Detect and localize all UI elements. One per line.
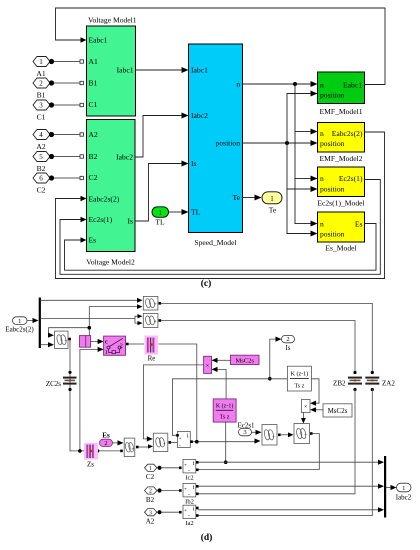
svg-text:-: - [188, 513, 190, 519]
svg-text:1: 1 [158, 209, 162, 217]
dot product block D1 [55, 331, 71, 348]
outport Te [262, 192, 282, 215]
svg-text:Es: Es [355, 220, 363, 229]
wire switch out to Re [126, 343, 129, 346]
wire K2 up to Mult1 [218, 369, 227, 399]
node B1 [49, 80, 54, 85]
svg-text:+: + [184, 463, 187, 469]
sum block S2 [153, 433, 171, 451]
svg-text:TL: TL [155, 218, 165, 227]
svg-text:MsC2s: MsC2s [235, 358, 254, 365]
svg-text:Iabc2: Iabc2 [191, 111, 208, 120]
svg-text:+: + [184, 508, 187, 514]
svg-text:+: + [272, 433, 275, 438]
node A2 [49, 132, 54, 137]
wire [54, 61, 80, 63]
svg-text:position: position [320, 185, 345, 194]
svg-text:Ic2: Ic2 [185, 475, 193, 482]
wire MsC2s to Mult1 [218, 359, 231, 361]
svg-text:1: 1 [149, 466, 152, 472]
outport Ec2s1 [237, 421, 255, 436]
svg-text:Ec2s(1)_Model: Ec2s(1)_Model [317, 199, 364, 208]
wire bus2 to sumB [41, 316, 138, 323]
svg-text:A2: A2 [89, 130, 98, 139]
wire Ec2s out loop [60, 180, 380, 275]
node C2 [49, 175, 54, 180]
wire Re out [159, 344, 197, 441]
svg-text:+: + [65, 339, 68, 344]
svg-text:5: 5 [39, 153, 43, 161]
node feedback [88, 326, 92, 330]
svg-text:position: position [320, 139, 345, 148]
wire position [243, 142, 311, 144]
wire Es to sum1 [113, 442, 118, 444]
inport 1 [33, 57, 50, 67]
svg-text:Voltage Model1: Voltage Model1 [88, 16, 137, 25]
wire delay to switch [91, 341, 98, 343]
wire D1 out down through ZC2s [69, 340, 71, 451]
svg-text:Eabc2s(2): Eabc2s(2) [5, 326, 34, 334]
node n [293, 82, 297, 86]
current source Ib2 [183, 484, 199, 506]
svg-text:B2: B2 [89, 152, 98, 161]
svg-text:EMF_Model2: EMF_Model2 [319, 154, 362, 163]
svg-text:-: - [179, 443, 181, 449]
svg-text:+: + [184, 487, 187, 493]
wire sumB out to ZB2 column [161, 321, 355, 372]
svg-text:A1: A1 [89, 57, 98, 66]
sum block S4 [294, 424, 313, 444]
svg-text:B2: B2 [146, 496, 155, 504]
svg-text:×: × [304, 405, 307, 411]
wire C2 to Ic2 [162, 467, 180, 469]
wire [54, 177, 80, 179]
wire mux to Iabc2 [386, 487, 391, 489]
discrete K (z-1)/Ts z (magenta) [213, 399, 236, 422]
svg-text:Ec2s(1): Ec2s(1) [89, 215, 113, 224]
node position [285, 141, 289, 145]
wire S1 out to S2 [139, 446, 149, 448]
svg-text:position: position [216, 139, 241, 148]
wire Eabc1 feedback into VM1 [56, 8, 386, 85]
svg-text:Te: Te [233, 193, 241, 202]
wire K2 tap down to Ic2 line [225, 422, 227, 462]
svg-text:EMF_Model1: EMF_Model1 [319, 107, 362, 116]
svg-text:ZC2s: ZC2s [46, 380, 61, 388]
wire sumA out to ZA2 column [161, 303, 372, 371]
svg-text:Re: Re [148, 355, 156, 363]
current source Ic2 [183, 460, 199, 482]
node A1 [49, 59, 54, 64]
svg-text:1: 1 [18, 318, 21, 325]
current sensor Isens1 [176, 432, 193, 449]
svg-text:position: position [320, 91, 345, 100]
svg-text:B1: B1 [37, 91, 46, 100]
wire sensor line to K1 [173, 379, 288, 436]
svg-text:+: + [154, 303, 157, 308]
svg-text:Ib2: Ib2 [185, 499, 194, 506]
wire EMF1 out [365, 84, 386, 86]
wire Iabc2 [135, 116, 181, 158]
wire Is [135, 164, 181, 222]
wire Ia2 top to mux [199, 509, 379, 511]
svg-text:Is: Is [191, 159, 197, 168]
svg-text:K (z-1): K (z-1) [291, 371, 309, 378]
sum block S3 [262, 425, 281, 446]
svg-text:C1: C1 [89, 100, 98, 109]
mux bar [384, 456, 386, 518]
wire Ic2 top to mux [199, 461, 379, 463]
wire Ec2s1 to sum3 [252, 431, 257, 433]
inport TL [152, 207, 169, 227]
svg-text:-: - [188, 492, 190, 498]
svg-text:position: position [320, 230, 345, 239]
inport 5 [33, 152, 50, 162]
svg-text:Es: Es [89, 236, 97, 245]
svg-text:+: + [304, 432, 307, 437]
subsystem Speed_Model [189, 44, 243, 247]
svg-text:Zs: Zs [87, 461, 94, 469]
unit delay block [80, 336, 91, 348]
sum block S1 [124, 438, 138, 456]
sum block A [143, 296, 161, 310]
svg-text:TL: TL [191, 208, 201, 217]
wire Te [243, 197, 256, 199]
svg-text:Eabc1: Eabc1 [343, 81, 362, 90]
wire Iabc1 [136, 69, 182, 71]
impedance Zs [84, 443, 98, 469]
wire feedback net [49, 307, 137, 336]
svg-text:(d): (d) [201, 532, 213, 543]
inport A2 [145, 509, 162, 526]
wire [54, 156, 80, 158]
wire Mult2 down to sum4 [302, 413, 304, 421]
svg-text:C2: C2 [37, 186, 46, 195]
inport 2 [33, 78, 50, 88]
wire B2 to Ib2 [162, 490, 180, 492]
svg-text:K (z-1): K (z-1) [216, 403, 234, 410]
subsystem Ec2s(1)_Model [317, 167, 364, 208]
wire S2 out to Isens1 [171, 441, 177, 443]
node B2 [49, 154, 54, 159]
product Mult2 (white, flipped) [302, 400, 311, 413]
svg-text:2: 2 [286, 336, 289, 343]
svg-text:3: 3 [243, 429, 246, 436]
svg-text:n: n [320, 174, 324, 183]
resistor Re [145, 336, 159, 363]
gain MsC2s (magenta) [231, 355, 260, 364]
svg-text:2: 2 [149, 489, 152, 495]
svg-text:2: 2 [39, 80, 43, 88]
svg-text:n: n [320, 220, 324, 229]
svg-text:1: 1 [39, 58, 43, 66]
svg-text:n: n [236, 80, 240, 89]
svg-text:Is: Is [285, 344, 290, 352]
svg-text:c: c [105, 340, 108, 346]
svg-text:+: + [179, 436, 182, 442]
svg-text:A1: A1 [36, 69, 45, 78]
subsystem EMF_Model1 [318, 72, 365, 116]
svg-text:1: 1 [402, 485, 405, 492]
sum block B [143, 313, 161, 327]
wire Is tap [270, 339, 276, 379]
subsystem Es_Model [318, 212, 365, 253]
wire MsC2s2 to Mult2 [316, 409, 324, 411]
inport 4 [33, 130, 50, 140]
svg-text:B2: B2 [37, 164, 46, 173]
subsystem EMF_Model2 [318, 123, 365, 164]
svg-text:n: n [320, 129, 324, 138]
svg-text:ZB2: ZB2 [333, 380, 346, 388]
svg-text:3: 3 [149, 510, 152, 516]
svg-text:A2: A2 [36, 142, 45, 151]
svg-text:2: 2 [104, 440, 107, 447]
wire Eabc2s into demux [27, 320, 33, 322]
svg-text:+: + [154, 320, 157, 325]
switch block [104, 336, 126, 356]
wire S3 out to S4 [281, 434, 289, 436]
svg-text:ZA2: ZA2 [382, 380, 395, 388]
discrete K (z-1)/Ts z (white) [287, 366, 311, 391]
inport 3 [33, 100, 50, 110]
inport Eabc2s(2) [5, 317, 34, 334]
svg-text:MsC2s: MsC2s [328, 407, 348, 415]
svg-text:A2: A2 [146, 518, 155, 526]
svg-text:Es_Model: Es_Model [325, 244, 356, 253]
svg-text:C2: C2 [89, 173, 98, 182]
wire Isens1 out to sum3 [193, 441, 255, 443]
wire position bus [286, 94, 288, 234]
product Mult1 (flipped) [204, 356, 212, 373]
inport C2 [145, 464, 162, 481]
svg-text:Iabc1: Iabc1 [117, 66, 134, 75]
svg-text:Ts z: Ts z [220, 415, 230, 421]
inport 6 [33, 173, 50, 183]
svg-text:Ec2s(1): Ec2s(1) [339, 174, 363, 183]
inport Es [100, 431, 113, 447]
svg-text:3: 3 [39, 102, 43, 110]
wire S4 out loop to Ic2 bottom [198, 434, 320, 470]
subsystem Voltage Model1 [87, 16, 137, 117]
wire K1 out to Mult2 [311, 379, 319, 403]
svg-text:C1: C1 [37, 113, 46, 122]
wire n bus down [294, 84, 296, 224]
svg-text:1: 1 [270, 195, 274, 203]
wire ZA2 down to Ia2 [198, 390, 373, 516]
svg-text:4: 4 [39, 131, 43, 139]
inport B2 [145, 487, 162, 504]
wire [54, 82, 80, 84]
impedance ZC2s [46, 371, 77, 391]
svg-text:C2: C2 [146, 473, 155, 481]
svg-text:2: 2 [120, 344, 123, 350]
svg-text:1: 1 [105, 350, 108, 356]
wire Mult1 out to sum2 [143, 365, 203, 439]
wire bottom net Zs row [70, 450, 122, 452]
outport Iabc2 [396, 483, 412, 501]
wire [54, 134, 80, 136]
current source Ia2 [183, 505, 199, 527]
wire TL [169, 211, 182, 213]
svg-text:Es: Es [102, 431, 110, 439]
wire into switch port1 [80, 349, 98, 451]
wire n [243, 83, 311, 85]
svg-text:Speed_Model: Speed_Model [194, 238, 236, 247]
subsystem Voltage Model2 [86, 120, 135, 267]
svg-text:Eabc2s(2): Eabc2s(2) [332, 129, 363, 138]
svg-text:×: × [206, 363, 209, 369]
svg-text:Voltage Model2: Voltage Model2 [86, 258, 135, 267]
outport Is [282, 335, 295, 352]
wire [54, 104, 80, 106]
demux bar [39, 298, 41, 349]
svg-text:Iabc2: Iabc2 [396, 494, 412, 502]
impedance ZB2 [333, 371, 362, 391]
svg-text:+: + [132, 446, 135, 451]
wire A2 to Ia2 [162, 511, 180, 513]
wire ZB2 down to Ib2 [198, 390, 356, 494]
wire Es out loop [65, 224, 377, 271]
wire EMF2 out loop [56, 132, 385, 279]
svg-text:Ts z: Ts z [295, 384, 305, 390]
svg-text:6: 6 [39, 175, 43, 183]
svg-text:-: - [188, 468, 190, 474]
svg-text:Eabc2s(2): Eabc2s(2) [89, 195, 120, 204]
svg-text:n: n [320, 81, 324, 90]
svg-text:Eabc1: Eabc1 [89, 36, 108, 45]
svg-text:Ia2: Ia2 [185, 520, 193, 527]
wire Ib2 top to mux [199, 485, 379, 487]
svg-text:Is: Is [128, 217, 134, 226]
gain MsC2s (white) [323, 404, 352, 417]
wire bus3 to dotprod D1 [41, 344, 48, 346]
node C1 [49, 102, 54, 107]
svg-text:B1: B1 [89, 79, 98, 88]
impedance ZA2 [365, 371, 395, 391]
svg-text:Te: Te [269, 206, 277, 215]
wire bus1 to sumA [41, 299, 137, 301]
svg-text:Iabc2: Iabc2 [116, 153, 133, 162]
svg-text:Iabc1: Iabc1 [191, 66, 208, 75]
svg-text:+: + [163, 441, 166, 446]
svg-text:(c): (c) [201, 278, 212, 289]
